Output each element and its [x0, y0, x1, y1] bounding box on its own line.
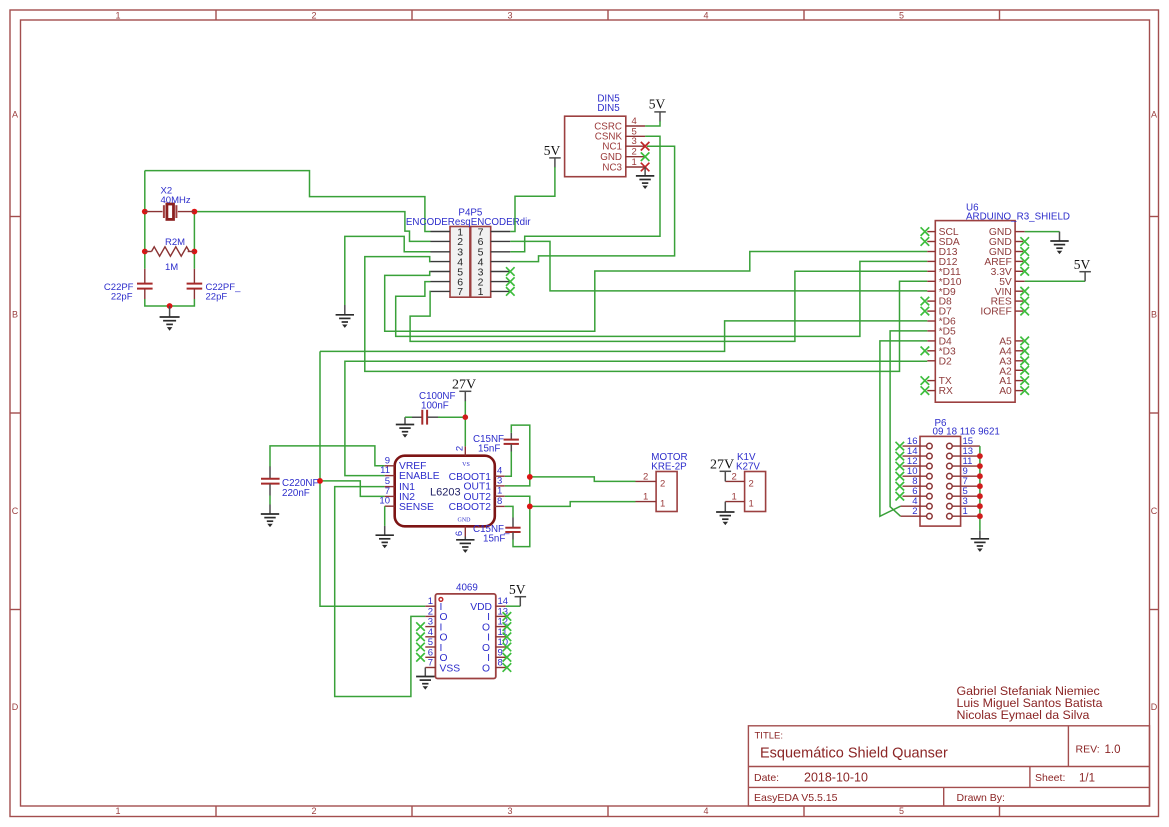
wire net CSNK to P4P5 pin R5: [510, 136, 660, 252]
resistor R2M: [145, 237, 195, 273]
svg-text:A: A: [1151, 110, 1157, 120]
wire net C220NF bottom to ground: [269, 496, 271, 505]
wire net P4P5 L3 to ground: [345, 236, 431, 305]
capacitor C22PF_: [187, 269, 241, 303]
svg-text:B: B: [12, 310, 18, 320]
no-connect X U6 A1: [1020, 376, 1029, 385]
IC 4069: [425, 583, 508, 679]
IC L6203: [379, 446, 504, 537]
node junction OUT2 motor tap: [527, 504, 533, 510]
svg-text:5: 5: [899, 11, 904, 21]
svg-text:2: 2: [311, 806, 316, 816]
no-connect X U6 RES: [1020, 297, 1029, 306]
no-connect X 4069 pin 12: [503, 622, 512, 631]
svg-text:4: 4: [703, 11, 708, 21]
wire net U6 5V: [1025, 280, 1085, 282]
svg-text:1: 1: [632, 157, 637, 168]
svg-text:5: 5: [899, 806, 904, 816]
pin stubs: [385, 446, 505, 536]
svg-text:100nF: 100nF: [421, 400, 449, 411]
node junctions P6 odd pins: [977, 453, 983, 519]
node junction xtal gnd: [167, 303, 173, 309]
svg-text:8: 8: [497, 496, 502, 507]
no-connect X 4069 pin 3: [416, 622, 425, 631]
svg-text:2: 2: [643, 471, 648, 482]
no-connect X 4069 pin 6: [416, 653, 425, 662]
right pin stubs: [1015, 232, 1025, 391]
wire net U6 GND1 to ground: [1025, 231, 1060, 233]
no-connect X U6 AREF: [1020, 257, 1029, 266]
no-connect X P6 pin 14: [896, 452, 905, 461]
svg-text:2: 2: [660, 478, 665, 489]
svg-text:1M: 1M: [165, 262, 178, 273]
node junction XTAL2 resistor right: [192, 249, 198, 255]
no-connect X 4069 pin 5: [416, 643, 425, 652]
svg-text:2: 2: [749, 478, 754, 489]
svg-text:1: 1: [660, 499, 665, 510]
wire net XTAL1 left vertical: [144, 171, 146, 269]
no-connect X U6 A0: [1020, 386, 1029, 395]
wire net P4P5 R6 to U6 D9: [510, 241, 927, 291]
no-connect X U6 3.3V: [1020, 267, 1029, 276]
power flag 5V (DIN5 CSRC): [649, 97, 666, 122]
svg-text:GND: GND: [458, 518, 472, 524]
svg-text:40MHz: 40MHz: [161, 195, 191, 206]
capacitor C22PF: [104, 269, 153, 303]
wire net XTAL1 to P4P5 pin 1: [145, 171, 431, 232]
svg-text:5V: 5V: [1074, 257, 1091, 272]
svg-text:REV:: REV:: [1076, 744, 1100, 756]
pin 5 CSNK: [626, 135, 645, 137]
svg-text:22pF: 22pF: [206, 292, 228, 303]
no-connect X U6 A4: [1020, 347, 1029, 356]
svg-text:27V: 27V: [452, 377, 476, 392]
node junction XTAL1 crystal left: [142, 209, 148, 215]
wire net OUT1 / C15NF top / MOTOR 2: [505, 425, 636, 486]
ground xtal: [160, 306, 180, 331]
no-connect X U6 GND3: [1020, 247, 1029, 256]
ground L6203 GND pin: [456, 537, 474, 553]
no-connect X U6 D7: [921, 307, 930, 316]
wire net P4P5 L4 to U6 D10: [365, 257, 928, 372]
svg-text:8: 8: [498, 658, 503, 669]
svg-text:K27V: K27V: [736, 462, 760, 473]
svg-text:Esquemático Shield Quanser: Esquemático Shield Quanser: [760, 746, 948, 762]
svg-text:D: D: [1151, 702, 1158, 712]
wire net XTAL2 to P4P5 pin 2: [194, 212, 430, 242]
capacitor C100NF: [405, 391, 455, 425]
no-connect X 4069 pin 9: [503, 653, 512, 662]
svg-text:7: 7: [428, 658, 433, 669]
wire net P4P5 R7 to 5V: [510, 167, 555, 232]
node junction VS: [463, 414, 469, 420]
no-connect X 4069 pin 13: [503, 612, 512, 621]
left pins 1-7: [431, 231, 451, 233]
svg-text:TITLE:: TITLE:: [755, 731, 784, 742]
node junction OUT1 motor tap: [527, 474, 533, 480]
crystal X2: [145, 186, 195, 220]
svg-text:5V: 5V: [649, 97, 666, 112]
wire net CBOOT2 to C15NF bottom top: [505, 506, 513, 517]
svg-text:1/1: 1/1: [1079, 773, 1095, 785]
no-connect X U6 RX: [921, 386, 930, 395]
connector P4P5 header: [406, 208, 531, 299]
svg-text:Drawn By:: Drawn By:: [957, 792, 1005, 804]
svg-text:VSS: VSS: [440, 663, 461, 674]
svg-text:27V: 27V: [710, 458, 734, 473]
svg-text:C: C: [1151, 506, 1158, 516]
no-connect X U6 D8: [921, 297, 930, 306]
svg-text:EasyEDA V5.5.15: EasyEDA V5.5.15: [754, 792, 838, 804]
svg-text:SENSE: SENSE: [399, 502, 434, 513]
capacitor C220NF: [261, 467, 318, 499]
wire net P6 odd pins bus to ground: [979, 446, 981, 530]
ground C220NF: [261, 505, 279, 528]
svg-text:A0: A0: [999, 386, 1012, 397]
no-connect X P6 pin 12: [896, 462, 905, 471]
pin 2 GND: [626, 156, 645, 158]
no-connect X 4069 pin 10: [503, 643, 512, 652]
svg-text:1: 1: [115, 806, 120, 816]
svg-text:7: 7: [457, 286, 463, 298]
ground SENSE: [376, 526, 394, 548]
svg-text:DIN5: DIN5: [597, 103, 620, 114]
pin 3 NC1: [626, 145, 645, 147]
connector MOTOR KRE-2P: [636, 452, 688, 512]
no-connect X P6 pin 10: [896, 472, 905, 481]
no-connect X 4069 pin 8: [503, 663, 512, 672]
ground K1V pin1: [716, 502, 734, 526]
no-connect X green GND DIN5: [641, 152, 650, 161]
svg-text:1: 1: [115, 11, 120, 21]
ground U6 GND1: [1050, 232, 1068, 254]
svg-text:2018-10-10: 2018-10-10: [804, 771, 868, 785]
node junction XTAL1 resistor left: [142, 249, 148, 255]
svg-text:A: A: [12, 110, 18, 120]
svg-text:2: 2: [912, 506, 917, 517]
wire net P4P5 L7 to U6 D11: [410, 271, 927, 341]
power flag 5V (U6): [1074, 257, 1091, 282]
ground P4P5 L3: [336, 305, 354, 328]
no-connect X U6 SDA: [921, 237, 930, 246]
svg-text:2: 2: [455, 446, 466, 451]
svg-text:15nF: 15nF: [483, 534, 505, 545]
svg-text:1: 1: [749, 499, 754, 510]
svg-text:Sheet:: Sheet:: [1035, 772, 1065, 784]
capacitor C15NF bottom: [473, 518, 521, 545]
svg-text:D2: D2: [939, 356, 952, 367]
svg-text:15nF: 15nF: [478, 444, 500, 455]
title block: [748, 684, 1149, 806]
right pins 7-1: [491, 231, 511, 233]
svg-text:NC3: NC3: [602, 162, 622, 173]
ground 4069 VSS: [416, 677, 434, 690]
no-connect X U6 VIN: [1020, 287, 1029, 296]
power flag 5V (P4P5 R7): [544, 143, 561, 168]
svg-text:CBOOT2: CBOOT2: [449, 502, 492, 513]
svg-text:3: 3: [507, 11, 512, 21]
no-connect X U6 TX: [921, 376, 930, 385]
no-connect X U6 A2: [1020, 366, 1029, 375]
no-connect X red NC3: [641, 163, 650, 172]
wire net P4P5 L5 to U6 D13: [385, 252, 928, 332]
no-connect X 4069 pin 4: [416, 633, 425, 642]
power flag 27V (K1V pin2): [710, 458, 734, 482]
svg-text:3: 3: [507, 806, 512, 816]
wire net U6 D5 to P6 pin 2: [890, 331, 927, 516]
no-connect X U6 A5: [1020, 337, 1029, 346]
wire net ENABLE / U6 D2: [345, 361, 927, 475]
wire net VREF / C220NF: [270, 446, 385, 467]
svg-text:1.0: 1.0: [1105, 744, 1121, 756]
svg-text:O: O: [482, 663, 490, 674]
wire net SENSE to ground: [384, 506, 386, 526]
svg-text:C: C: [12, 506, 19, 516]
svg-text:10: 10: [379, 496, 390, 507]
wire net OUT2 / C15NF bottom / MOTOR 1: [505, 496, 636, 546]
svg-text:220nF: 220nF: [282, 488, 310, 499]
power flag 27V (L6203 VS): [452, 377, 476, 401]
svg-text:22pF: 22pF: [111, 292, 133, 303]
wire net U6 D4 to P6 pin 4: [880, 341, 927, 516]
no-connect X U6 IOREF: [1020, 307, 1029, 316]
ground C100NF: [396, 417, 414, 437]
svg-text:4: 4: [703, 806, 708, 816]
node junction XTAL2 crystal right: [192, 209, 198, 215]
svg-text:5V: 5V: [509, 582, 526, 597]
svg-text:1: 1: [732, 492, 737, 503]
wire net 4069 VSS to ground: [424, 668, 426, 677]
power flag 5V (4069 VDD): [509, 582, 526, 606]
no-connect X U6 D3: [921, 347, 930, 356]
svg-text:1: 1: [478, 286, 484, 298]
no-connect X P6 pin 8: [896, 482, 905, 491]
svg-text:2: 2: [311, 11, 316, 21]
svg-text:ENABLE: ENABLE: [399, 471, 440, 482]
svg-text:KRE-2P: KRE-2P: [651, 462, 687, 473]
svg-text:L6203: L6203: [430, 487, 461, 499]
wire net 5V to CSRC: [645, 121, 660, 126]
wire net VS 27V C100NF: [405, 401, 465, 447]
svg-text:2: 2: [732, 471, 737, 482]
wire net IN1 / 4069 pin2: [335, 487, 426, 697]
no-connect X P6 pin 6: [896, 492, 905, 501]
svg-text:Date:: Date:: [754, 772, 779, 784]
svg-text:D: D: [12, 702, 19, 712]
no-connect X P4P5 R1: [506, 287, 515, 296]
svg-text:3: 3: [632, 136, 637, 147]
capacitor C15NF top: [473, 433, 519, 455]
wire net CBOOT1 to C15NF bottom: [505, 452, 512, 477]
no-connect X U6 GND2: [1020, 237, 1029, 246]
ground P6: [971, 531, 989, 552]
svg-text:Nicolas Eymael da Silva: Nicolas Eymael da Silva: [957, 708, 1090, 722]
node junction IN2 branch: [317, 478, 323, 484]
wire net XTAL2 right vertical: [193, 212, 195, 269]
connector P6 09 18 116 9621: [901, 418, 1000, 526]
pin 1 NC3: [626, 166, 645, 168]
svg-text:11: 11: [380, 465, 390, 476]
IC U6 ARDUINO_R3_SHIELD: [927, 203, 1070, 403]
ground DIN5 NC3: [636, 167, 654, 189]
no-connect X U6 SCL: [921, 227, 930, 236]
left pin stubs: [927, 232, 935, 391]
svg-text:IOREF: IOREF: [980, 307, 1011, 318]
wire net 4069 VDD to 5V: [506, 605, 520, 607]
wire net P4P5 L6 to U6 D12: [396, 261, 928, 336]
svg-text:4069: 4069: [456, 583, 478, 594]
svg-text:1: 1: [963, 506, 968, 517]
no-connect X P4P5 R3: [506, 267, 515, 276]
svg-text:1: 1: [643, 492, 648, 503]
no-connect X P6 pin 16: [896, 442, 905, 451]
wire net GND xtal bottom: [145, 299, 195, 308]
no-connect X P4P5 R2: [506, 277, 515, 286]
svg-text:ARDUINO_R3_SHIELD: ARDUINO_R3_SHIELD: [966, 212, 1070, 223]
svg-text:R2M: R2M: [165, 237, 185, 248]
connector K1V K27V: [725, 452, 765, 512]
svg-text:RX: RX: [939, 386, 953, 397]
no-connect X U6 A3: [1020, 357, 1029, 366]
no-connect X 4069 pin 11: [503, 633, 512, 642]
svg-text:B: B: [1151, 310, 1157, 320]
wire net IN2 / 4069 pin1 / U6 D6: [320, 321, 927, 606]
connector DIN5: [565, 94, 646, 177]
svg-text:5V: 5V: [544, 143, 561, 158]
no-connect X red NC1: [641, 142, 650, 151]
svg-text:6: 6: [454, 531, 465, 536]
svg-text:VS: VS: [462, 462, 470, 468]
pin 4 CSRC: [626, 125, 645, 127]
wire net NC1 to P4P5 pin R4: [510, 146, 674, 261]
svg-text:NC1: NC1: [602, 142, 622, 153]
